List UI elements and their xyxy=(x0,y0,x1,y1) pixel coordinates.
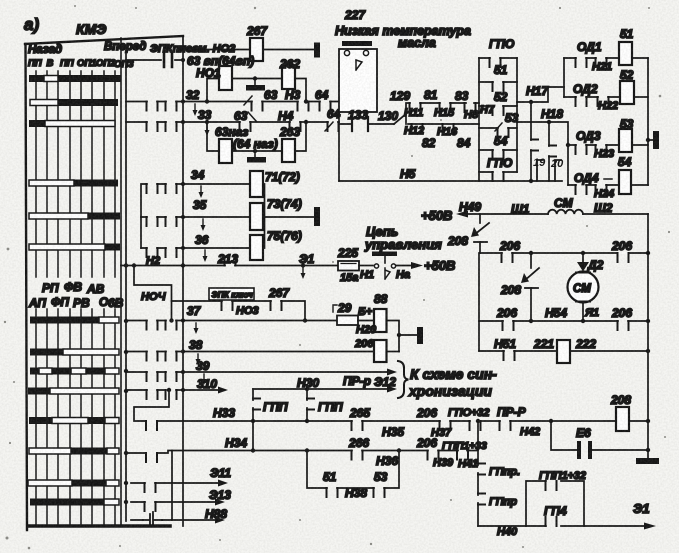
bus rail left xyxy=(125,54,127,521)
node 34 label and arrow xyxy=(191,168,205,198)
ground tap right xyxy=(646,131,659,149)
loop 51 H38 53 xyxy=(307,451,399,501)
ground right of 73(74) xyxy=(314,207,320,226)
motor bus wire middle xyxy=(479,319,648,323)
wire H5 bottom xyxy=(339,167,562,181)
cam bar row 3 xyxy=(29,120,115,127)
node 310 label xyxy=(197,377,217,391)
table mid labels row 2 xyxy=(28,295,124,310)
node H7 label xyxy=(480,104,495,116)
wire coil88 right to ground xyxy=(387,321,418,352)
contact H24 xyxy=(594,185,614,200)
node H2 label xyxy=(146,255,160,267)
cam bar row 9 xyxy=(30,368,119,375)
motor block right rail xyxy=(646,214,650,459)
wire segment labels 129 81 83 xyxy=(390,88,469,103)
wire row 34 xyxy=(141,184,183,248)
contact 206 upper left xyxy=(499,239,520,262)
wire row E13 xyxy=(131,499,225,512)
cam bar row 10 xyxy=(28,388,119,395)
contact 63 forward xyxy=(244,88,278,111)
coil 51 xyxy=(619,27,648,65)
label (64 naz) xyxy=(233,137,278,151)
diode D2 xyxy=(577,253,604,272)
wire segment labels 82 84 xyxy=(422,136,471,150)
contact 63 reverse xyxy=(234,109,256,131)
ground right of 267 xyxy=(314,43,320,58)
cam bar row 12 xyxy=(29,448,119,455)
cam bar row 8 xyxy=(30,349,119,356)
label 63 naz xyxy=(215,125,248,139)
motor SM armature xyxy=(568,272,600,322)
coil 221-222 xyxy=(557,340,570,363)
branch wire 63naz coils xyxy=(205,120,308,153)
wire OD3 row xyxy=(568,144,619,146)
wire label EPK pnevm. NO2 xyxy=(150,43,235,55)
coil 53 xyxy=(619,117,648,152)
coil 206 xyxy=(354,338,399,362)
wire row 310 xyxy=(126,387,228,400)
table column grid lines upper xyxy=(36,71,115,277)
contact NO3 xyxy=(222,301,259,317)
wire H34 row left xyxy=(126,451,253,463)
contact 206 middle right xyxy=(611,306,632,330)
knife switch 208 middle xyxy=(500,253,539,321)
contact OD2 xyxy=(573,82,598,106)
link H33 to H34 xyxy=(252,421,254,451)
contact 52 rung xyxy=(479,90,517,115)
node H20 label xyxy=(356,324,377,336)
ground below junction xyxy=(246,80,265,91)
contact H18 branch xyxy=(549,122,556,181)
rail GPpr xyxy=(478,421,520,526)
branch wire NO1 262 xyxy=(205,76,308,103)
cam bar row 6 xyxy=(29,244,120,251)
wire row E11 xyxy=(131,480,228,493)
wire row 37 xyxy=(126,318,337,329)
brace to sync circuit xyxy=(398,361,409,398)
contact H37 xyxy=(416,406,452,439)
contact 213 on bus xyxy=(217,252,238,266)
coil 73(74) xyxy=(250,197,302,230)
wire row 39 to sync xyxy=(126,369,397,382)
contact H17 branch xyxy=(529,102,538,183)
node 36 label and arrow xyxy=(195,233,209,262)
wire r29 to coil 88 xyxy=(358,320,374,322)
ground below 63naz branch xyxy=(247,153,266,163)
contact H12 xyxy=(404,124,424,137)
wire bus fuse to button xyxy=(359,265,373,267)
node H34 label xyxy=(225,436,247,450)
controller KM3 title xyxy=(76,21,106,37)
contact 51 rung xyxy=(479,63,517,91)
wire row 32 xyxy=(126,102,183,111)
coil 54 xyxy=(618,155,648,194)
contact H4 xyxy=(278,109,301,131)
contact OD4 xyxy=(574,171,612,194)
label control circuit xyxy=(364,224,442,252)
contact GPP left branch xyxy=(253,389,288,421)
label low oil temperature xyxy=(335,24,471,50)
node H49 label xyxy=(459,200,481,214)
contact GPO-32 xyxy=(448,407,490,430)
coil 75(76) xyxy=(250,229,302,260)
bottom wire to E1 xyxy=(478,501,656,538)
node H88 label xyxy=(205,507,227,521)
cam bar row 7 xyxy=(30,317,119,324)
node H1 label xyxy=(360,269,374,281)
wire H17 feed xyxy=(517,84,564,104)
wire row 33 xyxy=(126,122,183,131)
node 32 label and arrow xyxy=(186,88,200,116)
table frame xyxy=(25,36,183,530)
wire to coil 267 xyxy=(183,49,314,51)
coil 263 xyxy=(279,125,300,162)
knife switch 208 top xyxy=(447,214,489,253)
contact 267 aux xyxy=(268,286,290,310)
node H30 xyxy=(297,376,319,391)
node H36 label xyxy=(376,454,398,468)
contact H22 xyxy=(598,97,619,112)
junction dots on main rail xyxy=(181,47,185,392)
ground right of 88 xyxy=(417,327,423,344)
contact GPO bottom xyxy=(479,156,517,181)
contact H51 xyxy=(504,351,515,360)
node H35 label xyxy=(382,425,404,439)
switch box GP4 xyxy=(526,470,586,526)
ground bottom right xyxy=(636,458,659,464)
GPO ladder rails xyxy=(479,58,517,181)
pushbutton contact xyxy=(372,252,397,280)
switch 227 left rail down xyxy=(338,112,340,181)
strip inner vertical xyxy=(171,451,173,521)
node Na label xyxy=(396,269,410,281)
coil 267 xyxy=(246,24,268,61)
node E13 label xyxy=(209,488,231,502)
node 38 label and arrow xyxy=(189,338,203,365)
wire row 34 right xyxy=(183,183,250,185)
wire EPK key branch xyxy=(172,301,306,321)
cam bar row 5 xyxy=(29,213,120,220)
contact H3 xyxy=(285,88,309,111)
OD feeder vertical xyxy=(564,58,570,147)
wire OD4 row xyxy=(568,184,619,186)
table header row labels xyxy=(28,41,146,70)
pressure switch 227 xyxy=(339,41,377,112)
cam bar row 11 xyxy=(29,417,119,424)
main left bus rail xyxy=(182,36,184,526)
contact H41 xyxy=(442,440,487,470)
node H54 label xyxy=(545,306,567,320)
node E1 tap arrow xyxy=(299,252,315,279)
node 33 label and arrow xyxy=(198,108,212,136)
fuse 225 15a xyxy=(337,246,359,284)
wire row H88 xyxy=(131,512,225,526)
cam bar row 2 xyxy=(30,99,118,106)
label 63 vp (64 vp) xyxy=(187,54,254,68)
contact OD3 xyxy=(576,129,601,154)
contact NO2 pneumatic xyxy=(126,53,183,67)
cam bar row 1 xyxy=(29,75,121,82)
resistor r29 xyxy=(333,301,358,325)
wire button to +50V arrow xyxy=(396,258,455,273)
coil 71(72) xyxy=(250,170,300,197)
capacitor E6 branch xyxy=(551,421,650,459)
figure label a) xyxy=(24,15,39,34)
node 37 label and arrow xyxy=(187,304,202,334)
wire H33 row center xyxy=(251,419,650,423)
cam bar row 13 xyxy=(28,480,119,487)
motor supply top wire Sh1 SM Sh2 xyxy=(466,196,648,216)
coil NO1 xyxy=(196,66,232,90)
wire OD1 row xyxy=(564,57,619,59)
wire row 32 right xyxy=(183,101,339,103)
motor bus wire lower with coil 221 222 xyxy=(479,337,648,351)
changeover contact 130 xyxy=(378,109,407,124)
contact OD1 xyxy=(576,40,602,67)
wire H33 s-bend xyxy=(134,390,253,430)
wire row 36 xyxy=(141,248,183,257)
node 39 label and arrow xyxy=(196,359,210,385)
contact GPO top xyxy=(479,37,517,67)
table bottom border xyxy=(28,524,170,528)
right rail of OD coils xyxy=(647,58,649,185)
contact 265 xyxy=(349,406,370,430)
contact H8 xyxy=(464,103,479,121)
contact 64 lower xyxy=(325,107,341,131)
node E11 label xyxy=(210,466,231,480)
node H33 label xyxy=(213,406,235,420)
contact PR-R xyxy=(497,405,540,438)
motor bus wire upper xyxy=(480,251,650,255)
+50V left arrow label xyxy=(421,208,468,223)
coil 52 xyxy=(620,68,648,104)
contact 54 rung xyxy=(479,134,517,159)
contact H11 xyxy=(404,103,423,119)
wire row 33 right xyxy=(183,121,339,123)
contact H21 xyxy=(592,58,612,73)
contact 53 rung xyxy=(479,111,519,137)
wire PR-R E12 row xyxy=(253,374,397,393)
contact GPP right branch xyxy=(307,389,343,421)
main control bus wire E1 xyxy=(121,265,338,267)
motor block left rail xyxy=(478,253,480,351)
coil 63naz xyxy=(219,139,232,163)
contact 266 xyxy=(348,436,369,460)
coil 88 xyxy=(374,292,388,332)
wire row 35 xyxy=(141,217,183,226)
node B+ label xyxy=(358,306,373,318)
node 35 label and arrow xyxy=(193,198,207,231)
label 227 xyxy=(344,8,366,22)
wire row 133 xyxy=(339,123,479,125)
contact 64 upper xyxy=(315,88,331,111)
junction dots on left rail xyxy=(124,263,128,504)
wire NOCh bend xyxy=(132,263,172,320)
wire OD2 row xyxy=(564,96,620,98)
contact H39 xyxy=(416,436,454,469)
coil 208 lower xyxy=(610,393,631,431)
contact 19 stub xyxy=(533,157,546,181)
wire row upper H11 H15 xyxy=(406,103,479,124)
switch box EPK key xyxy=(209,288,254,300)
contact 20 stub xyxy=(550,158,564,181)
wire row 36 right xyxy=(183,247,250,249)
label to sync circuit xyxy=(408,366,497,399)
contact H23 xyxy=(594,145,614,160)
contact 206 middle left xyxy=(496,306,517,330)
cam bar row 4 xyxy=(29,180,118,187)
wire H34 row center xyxy=(251,448,478,452)
cam bar row 14 xyxy=(30,499,119,506)
contact H15 xyxy=(434,103,455,119)
coil group right link xyxy=(263,184,314,248)
wire H18 feed xyxy=(517,107,568,185)
contact 133 xyxy=(348,108,368,131)
contact H16 xyxy=(437,124,458,138)
table column grid lines lower xyxy=(36,309,115,524)
contact 206 upper right xyxy=(611,239,632,262)
coil 262 xyxy=(279,57,300,89)
table mid labels row 1 xyxy=(42,280,105,296)
wire row 38 xyxy=(126,352,374,361)
wire row 35 right xyxy=(183,216,250,218)
